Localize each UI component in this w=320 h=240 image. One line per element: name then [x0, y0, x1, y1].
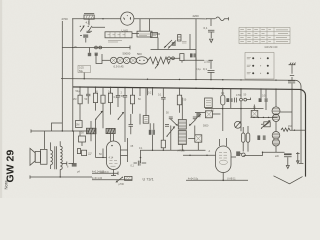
terminal right — [299, 162, 304, 164]
output transformer secondary — [60, 146, 62, 169]
resistor R9 box — [76, 121, 83, 128]
wire V2 to C21 — [244, 152, 285, 156]
resistor R5 vertical — [179, 54, 185, 63]
wire AVC y=108.6 — [205, 108, 264, 109]
terminal mains end — [228, 17, 230, 20]
wire bottom bus mid2 — [186, 179, 248, 181]
capacitor C13 — [131, 145, 147, 167]
wire speaker feed — [44, 131, 46, 149]
junction dots bus A — [84, 78, 277, 81]
switch mains S1a — [80, 26, 105, 33]
coil ant lower — [272, 139, 279, 152]
capacitor C15 box X — [195, 111, 220, 118]
capacitor C5 dark — [184, 53, 204, 60]
capacitor electrolytic C1 — [80, 34, 88, 42]
tick marks — [235, 98, 237, 103]
switch pointer right — [296, 152, 300, 164]
capacitor C16 — [231, 151, 245, 157]
tube socket chart — [245, 53, 274, 80]
coil osc upper — [272, 107, 280, 115]
junction dots bus B — [79, 86, 293, 90]
box component U — [205, 98, 213, 108]
IF transformer T1 — [178, 98, 187, 153]
wire transformer connections — [51, 141, 74, 177]
coil L2 hatched — [86, 121, 96, 141]
trimmer box T2 — [261, 122, 270, 127]
capacitor C11 marks — [129, 114, 134, 134]
wire coil tap — [280, 111, 292, 113]
capacitor C19 box X — [251, 110, 258, 117]
resistor R3 — [73, 95, 82, 120]
wire AVC y=117.4 dotted bus — [251, 117, 278, 118]
resistor R17 box — [79, 131, 86, 146]
capacitor C20 dark pair — [257, 135, 265, 140]
output transformer core — [55, 146, 57, 169]
wire coil stub — [88, 19, 90, 25]
output transformer primary — [51, 150, 53, 165]
capacitor C9 — [116, 95, 124, 107]
fuse Si1 oval — [136, 52, 147, 64]
capacitor block small — [88, 48, 91, 57]
tube V2 UCH11 — [216, 138, 232, 181]
capacitor C14 — [158, 88, 166, 107]
resistor R6 — [101, 95, 105, 128]
wire bus C left y=131 — [31, 129, 89, 132]
wire bus B HT y=89.2 thick — [73, 87, 306, 177]
capacitor antenna dark — [288, 77, 295, 89]
coil ant upper — [272, 132, 280, 140]
switch arm top — [197, 18, 211, 26]
paper noise — [0, 0, 1, 1]
resistor R12 oval — [221, 89, 225, 131]
coil L3 hatched — [106, 128, 115, 141]
choke Dr box — [125, 176, 133, 180]
resistor R15 zigzag — [281, 128, 306, 131]
wire 140 drop — [139, 114, 142, 163]
antenna — [289, 63, 296, 76]
resistor ballast hatched — [84, 13, 94, 24]
resistor R7 — [108, 93, 117, 114]
arrow pickup — [116, 177, 123, 182]
wire left frame vertical x=62.5 — [61, 21, 63, 131]
pilot lamp La3 — [123, 57, 129, 63]
trimmer arrow left — [169, 117, 178, 150]
resistor R4 — [93, 93, 97, 157]
wire antenna drop — [291, 89, 293, 130]
junction top wire — [102, 18, 103, 19]
switch wave change cluster — [151, 33, 197, 50]
lamp UAS top view — [121, 12, 134, 33]
connector pair 2 — [168, 57, 179, 60]
scan left edge shading — [0, 0, 2, 198]
wire V1 surroundings — [96, 134, 128, 162]
resistor R18 small boxes — [77, 149, 102, 157]
switch contact S4 — [165, 125, 175, 137]
potentiometer P1 — [234, 121, 241, 128]
resistor R14 oval — [246, 126, 250, 152]
fuse thermal curve — [216, 17, 225, 21]
chassis V chevron — [274, 176, 303, 184]
resistor R2 with label box — [78, 66, 91, 79]
wire drops group1 — [80, 87, 153, 96]
wire bus A heaters y=79.5 — [61, 79, 301, 164]
coil osc lower — [272, 89, 279, 131]
switch contact S2 — [95, 111, 102, 119]
wire bottom bus mid — [92, 172, 132, 180]
capacitor C17 dark — [226, 89, 232, 108]
capacitor C23 dark — [196, 113, 201, 119]
capacitor Cx box — [188, 135, 202, 151]
wire selector risers — [132, 19, 160, 34]
capacitor C21 output dark — [275, 153, 292, 168]
resistor R11 — [161, 107, 165, 150]
resistor R16 box — [143, 88, 149, 124]
resistor R13 oval — [241, 127, 245, 152]
capacitor C10 — [123, 95, 127, 142]
wire left frame vertical x=73 — [72, 19, 75, 164]
wire C19 stub — [253, 105, 255, 111]
capacitor C12 dark pair — [149, 123, 155, 150]
capacitor C18 dark — [259, 89, 268, 110]
switch contact S3 — [118, 112, 124, 119]
fuse holder — [95, 53, 111, 64]
resistor R8 — [130, 95, 134, 114]
connector pair 3 — [240, 89, 251, 132]
junction dot — [140, 157, 142, 159]
capacitor C7 with ground — [204, 26, 215, 43]
pilot lamp La2 — [117, 57, 123, 63]
wire V2 left — [183, 150, 216, 156]
resistor R10 — [177, 88, 187, 113]
voltage selector plate — [137, 31, 152, 37]
label sprinkle annotations — [67, 68, 291, 174]
connector plug pair — [62, 46, 130, 50]
wire bottom bus left — [30, 175, 92, 178]
tube V1 VCL11 — [107, 141, 121, 176]
transformer tap selector box — [105, 32, 132, 42]
capacitor C22 dark — [72, 163, 77, 167]
switch arrow S5 — [261, 121, 270, 129]
pilot lamp La1 — [110, 57, 116, 63]
wire mid horizontals — [141, 150, 206, 151]
capacitor C8 — [85, 94, 91, 104]
loudspeaker — [30, 148, 47, 165]
table voltages — [239, 28, 290, 44]
trimmer arrow right — [190, 117, 197, 135]
wire step to transformer — [52, 123, 63, 131]
wire to C6 — [196, 19, 213, 80]
resistor dropper zigzag — [148, 57, 170, 69]
wire top mains y=18.8 — [72, 18, 229, 20]
capacitor C6 mains — [203, 67, 215, 79]
pilot lamp La4 — [130, 57, 136, 63]
